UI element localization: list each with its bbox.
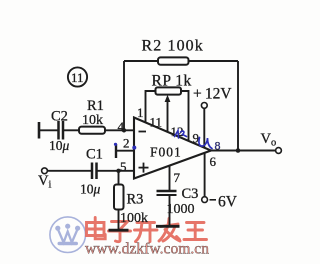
wire R2 top right — [189, 60, 239, 62]
input Vi terminal — [38, 168, 51, 191]
wire R1 to pin 4 — [105, 129, 135, 131]
blue dot at pin2 terminal — [114, 143, 117, 146]
potentiometer RP — [156, 87, 182, 94]
svg-text:RP 1k: RP 1k — [152, 73, 192, 90]
svg-text:www.dzkfw.com.cn: www.dzkfw.com.cn — [85, 241, 209, 258]
wire R2 top left — [124, 60, 158, 62]
svg-text:R1: R1 — [87, 98, 104, 114]
capacitor C1 — [92, 163, 97, 180]
wire Vi to C1 — [47, 170, 92, 172]
wire C3 to ground — [169, 195, 171, 226]
svg-text:11: 11 — [150, 115, 163, 130]
watermark logo circle W — [50, 217, 86, 253]
wire output pin6 to Vo — [210, 150, 276, 152]
resistor R3 — [114, 185, 124, 210]
op-amp plus input sign — [139, 163, 149, 173]
junction node pin5/R3 — [116, 169, 120, 173]
wire R3 to ground — [118, 210, 120, 231]
-6V supply terminal — [202, 194, 238, 211]
svg-text:F001: F001 — [150, 145, 182, 160]
svg-text:4: 4 — [118, 119, 125, 134]
watermark chinese text dian — [87, 218, 106, 239]
op-amp U1 F001 triangle — [134, 118, 211, 179]
+12V supply terminal — [193, 86, 232, 149]
ground under R3 — [109, 229, 129, 232]
resistor R1 — [79, 127, 105, 134]
svg-text:R2 100k: R2 100k — [142, 38, 204, 55]
svg-text:C1: C1 — [86, 147, 103, 163]
svg-text:10μ: 10μ — [80, 182, 101, 197]
wire input bar to C2 — [39, 129, 58, 131]
capacitor C3 — [157, 191, 177, 195]
watermark chinese text wang — [184, 223, 207, 240]
output Vo terminal — [261, 131, 282, 153]
blue annotation u near pin 9 — [199, 138, 212, 149]
wire RP right — [181, 91, 189, 141]
wire pin2 stub — [116, 144, 135, 158]
watermark chinese text zi — [109, 222, 131, 242]
svg-text:10μ: 10μ — [49, 138, 70, 153]
svg-text:11: 11 — [71, 70, 84, 85]
wire C2 to R1 — [63, 129, 79, 131]
svg-text:9: 9 — [193, 131, 200, 146]
svg-text:+ 12V: + 12V — [193, 86, 232, 103]
blue dot at pin2 triangle — [132, 146, 136, 150]
wire -6V vertical — [204, 153, 206, 197]
figure number 11 — [68, 67, 87, 86]
svg-text:2: 2 — [123, 136, 130, 151]
junction node pin4/R2 — [122, 128, 126, 132]
resistor R2 — [158, 57, 189, 64]
watermark chinese text fa — [159, 219, 180, 242]
wire junction to R3 — [118, 171, 120, 185]
svg-text:8: 8 — [215, 139, 221, 153]
svg-text:C3: C3 — [182, 186, 199, 202]
wire R2 left vertical — [123, 61, 125, 130]
wire RP left — [146, 91, 156, 124]
svg-text:7: 7 — [174, 170, 181, 185]
svg-text:1: 1 — [137, 105, 144, 120]
svg-text:1000: 1000 — [167, 202, 195, 217]
svg-text:R3: R3 — [127, 192, 144, 208]
svg-text:6: 6 — [210, 154, 217, 169]
ground under C3 — [156, 225, 180, 228]
wire C1 to pin 5 — [97, 170, 136, 172]
blue annotation over pin 12 — [175, 131, 187, 139]
RP wiper arrow — [165, 95, 171, 133]
watermark chinese text kai — [135, 223, 158, 242]
svg-text:6V: 6V — [218, 194, 238, 211]
svg-text:10k: 10k — [82, 113, 103, 128]
op-amp minus input sign — [139, 131, 147, 133]
capacitor C2 — [59, 121, 64, 140]
wire pin7 to C3 — [169, 165, 171, 191]
svg-text:100k: 100k — [120, 211, 148, 226]
input terminal bar top-left — [38, 122, 41, 139]
junction node output/R2 — [236, 148, 241, 153]
svg-text:5: 5 — [120, 159, 127, 174]
svg-text:C2: C2 — [51, 109, 68, 125]
wire R2 right vertical — [237, 61, 239, 151]
